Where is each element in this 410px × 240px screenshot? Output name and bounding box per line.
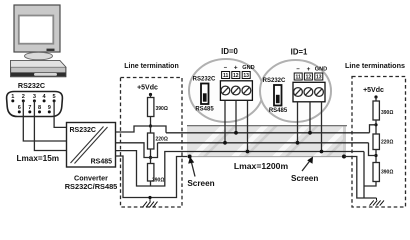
ground symbol right — [370, 198, 385, 206]
node screen bond right — [342, 155, 346, 159]
svg-text:RS232C: RS232C — [263, 78, 286, 84]
pin 12 — [304, 73, 312, 80]
svg-text:ID=0: ID=0 — [221, 47, 238, 56]
node +5V right — [374, 95, 377, 98]
svg-text:Lmax=15m: Lmax=15m — [17, 154, 60, 163]
pin 13 — [315, 73, 323, 80]
svg-text:GND: GND — [315, 67, 327, 73]
svg-text:13: 13 — [316, 75, 322, 81]
svg-text:12: 12 — [233, 73, 239, 79]
bus wire B — [158, 142, 369, 144]
node B right junction — [374, 154, 377, 157]
wire pin3 to converter — [34, 101, 66, 151]
wire R6 bottom to ground run — [364, 182, 376, 187]
node +5V left — [149, 93, 152, 96]
wire bus GND to ground right — [344, 157, 377, 199]
svg-text:390Ω: 390Ω — [381, 110, 393, 116]
svg-text:9: 9 — [48, 105, 51, 111]
computer PC host — [11, 5, 66, 77]
wire pin5 to converter — [54, 101, 66, 128]
wire pin2 to converter — [23, 101, 66, 141]
svg-text:11: 11 — [223, 73, 229, 79]
switch S2 — [274, 85, 282, 106]
svg-text:1: 1 — [11, 94, 14, 100]
svg-text:RS232C/RS485: RS232C/RS485 — [65, 182, 118, 191]
svg-text:RS232C: RS232C — [18, 81, 45, 90]
svg-text:13: 13 — [243, 73, 249, 79]
svg-text:RS232C: RS232C — [193, 77, 216, 83]
svg-text:8: 8 — [38, 105, 41, 111]
pin 13 — [242, 72, 250, 79]
wire R3 bottom stub — [150, 181, 152, 186]
svg-text:ID=1: ID=1 — [291, 48, 308, 57]
pin 11 — [294, 73, 302, 80]
svg-text:+5Vdc: +5Vdc — [363, 87, 384, 94]
wire GND bus down to ground run right — [363, 152, 365, 199]
wire dev0 pin12 to bus A — [235, 101, 237, 133]
wire converter GND out / bus GND (via R3 bottom) — [116, 151, 365, 186]
monitor stand — [25, 52, 53, 60]
wire node B to cable B — [151, 143, 158, 158]
switch S1 — [201, 84, 209, 105]
wire converter B out — [116, 143, 151, 158]
wire +5V to R4 — [375, 97, 377, 101]
terminal block — [220, 81, 252, 101]
wire bus A to node A right — [370, 125, 377, 133]
wire converter screen out to ground run — [116, 156, 190, 198]
device slave ID=0 — [189, 59, 263, 122]
wire dev1 pin13 to bus GND — [321, 102, 323, 152]
pin 11 — [222, 72, 230, 79]
svg-text:5: 5 — [53, 94, 56, 100]
wire dev1 pin12 to bus A — [309, 102, 311, 133]
svg-text:RS232C: RS232C — [70, 127, 96, 134]
svg-text:+: + — [307, 66, 311, 73]
dashed box left termination — [121, 78, 183, 208]
wire bus B to node B right — [369, 143, 377, 156]
resistor R3 390ohm (left pull-down) — [148, 164, 165, 184]
svg-text:RS485: RS485 — [195, 107, 214, 113]
svg-text:Screen: Screen — [291, 174, 318, 183]
svg-text:12: 12 — [306, 75, 312, 81]
svg-text:390Ω: 390Ω — [156, 106, 168, 112]
node A left junction — [149, 124, 152, 127]
node screen bond left — [188, 155, 192, 159]
ground symbol left — [143, 198, 158, 208]
svg-text:6: 6 — [18, 105, 21, 111]
wire R5 to node B right — [375, 150, 377, 163]
svg-text:GND: GND — [242, 65, 254, 71]
dashed box right termination — [352, 77, 406, 208]
wire dev1 pin11 to bus B — [297, 102, 299, 143]
wire converter A out — [116, 126, 167, 133]
svg-text:RS485: RS485 — [91, 159, 113, 166]
pin 12 — [232, 72, 240, 79]
svg-text:220Ω: 220Ω — [381, 140, 393, 146]
wire dev0 pin11 to bus B — [224, 101, 226, 143]
node ground tap left — [148, 196, 151, 199]
node A right junction — [374, 123, 377, 126]
svg-text:Lmax=1200m: Lmax=1200m — [234, 161, 289, 171]
device slave ID=1 — [260, 60, 331, 122]
shielded cable band — [187, 124, 360, 160]
converter U1 RS232C/RS485 — [67, 123, 116, 168]
bus wire A — [166, 132, 370, 134]
wire dev0 pin13 to bus GND — [247, 101, 249, 152]
svg-text:7: 7 — [28, 105, 31, 111]
wire R4 to node A right — [375, 120, 377, 134]
terminal block — [293, 82, 325, 102]
resistor R6 390ohm (right pull-down) — [373, 163, 393, 182]
resistor R1 390ohm (left pull-up) — [148, 98, 168, 117]
svg-text:+5Vdc: +5Vdc — [137, 85, 158, 92]
resistor R4 390ohm (right pull-up) — [373, 101, 393, 120]
svg-text:RS485: RS485 — [269, 108, 288, 114]
svg-text:390Ω: 390Ω — [152, 178, 164, 184]
svg-text:11: 11 — [296, 75, 302, 81]
svg-text:+: + — [234, 65, 238, 72]
wire R3 top — [150, 158, 152, 164]
wire node A to R2 — [150, 126, 152, 133]
wire +5V to R1 — [150, 95, 152, 98]
resistor R5 220ohm (right termination) — [373, 134, 393, 150]
system unit — [11, 61, 66, 77]
wire R1 to node A left — [150, 117, 152, 127]
svg-text:Screen: Screen — [187, 179, 214, 188]
node B left junction — [149, 156, 152, 159]
svg-text:220Ω: 220Ω — [156, 137, 168, 143]
svg-text:2: 2 — [22, 94, 25, 100]
svg-text:Line terminations: Line terminations — [345, 61, 405, 70]
resistor R2 220ohm (left termination) — [148, 133, 168, 149]
svg-text:390Ω: 390Ω — [381, 170, 393, 176]
wire R2 to node B left — [150, 149, 152, 158]
svg-text:3: 3 — [33, 94, 36, 100]
svg-text:Line termination: Line termination — [124, 63, 178, 70]
DB9 connector — [7, 92, 63, 117]
monitor — [14, 5, 60, 52]
